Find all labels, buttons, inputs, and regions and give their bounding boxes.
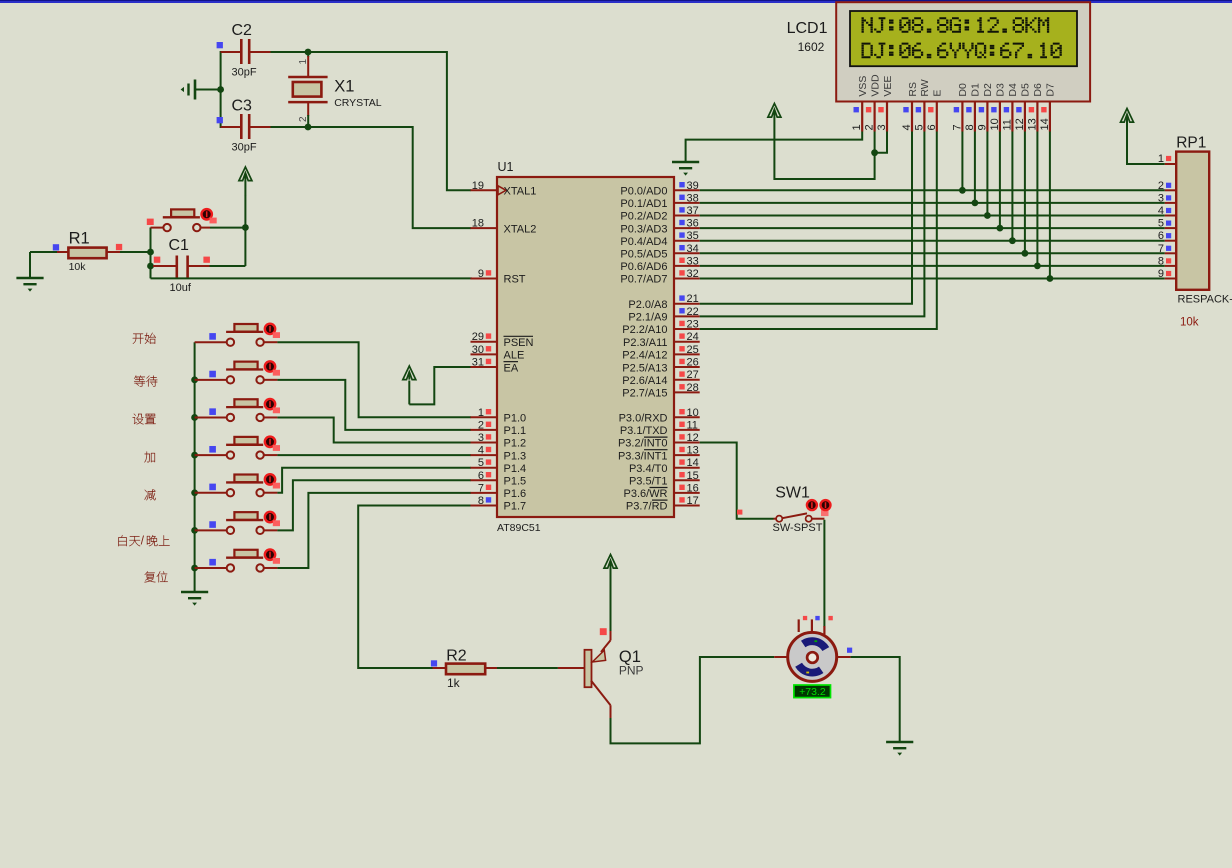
svg-text:3: 3 xyxy=(876,124,888,130)
svg-text:C1: C1 xyxy=(169,237,190,254)
svg-text:P3.4/T0: P3.4/T0 xyxy=(629,463,668,475)
svg-text:10k: 10k xyxy=(1180,317,1199,329)
svg-text:2: 2 xyxy=(1158,180,1164,192)
svg-text:RW: RW xyxy=(919,79,931,96)
svg-text:36: 36 xyxy=(687,218,699,230)
svg-text:P0.5/AD5: P0.5/AD5 xyxy=(620,249,667,261)
svg-text:D6: D6 xyxy=(1032,83,1044,97)
svg-text:P2.4/A12: P2.4/A12 xyxy=(622,350,667,362)
svg-text:33: 33 xyxy=(687,255,699,267)
svg-text:23: 23 xyxy=(687,319,699,331)
svg-text:P2.2/A10: P2.2/A10 xyxy=(622,324,667,336)
svg-text:SW1: SW1 xyxy=(775,485,810,502)
svg-text:21: 21 xyxy=(687,293,699,305)
svg-text:38: 38 xyxy=(687,192,699,204)
svg-text:3: 3 xyxy=(478,432,484,444)
svg-text:29: 29 xyxy=(472,331,484,343)
svg-text:R2: R2 xyxy=(446,647,467,664)
svg-text:5: 5 xyxy=(478,457,484,469)
svg-text:CRYSTAL: CRYSTAL xyxy=(334,97,382,109)
svg-text:35: 35 xyxy=(687,230,699,242)
svg-text:X1: X1 xyxy=(334,78,354,96)
svg-text:P1.4: P1.4 xyxy=(504,463,527,475)
svg-text:P2.0/A8: P2.0/A8 xyxy=(628,299,667,311)
svg-text:13: 13 xyxy=(687,445,699,457)
svg-text:28: 28 xyxy=(687,382,699,394)
svg-text:4: 4 xyxy=(901,124,913,130)
svg-text:P3.2/INT0: P3.2/INT0 xyxy=(618,438,668,450)
svg-text:25: 25 xyxy=(687,344,699,356)
svg-text:30pF: 30pF xyxy=(232,67,257,79)
svg-text:7: 7 xyxy=(951,124,963,130)
svg-text:RESPACK-8: RESPACK-8 xyxy=(1178,294,1232,306)
svg-text:P1.3: P1.3 xyxy=(504,450,527,462)
svg-text:P1.0: P1.0 xyxy=(504,413,527,425)
svg-text:10k: 10k xyxy=(69,261,87,273)
svg-text:+73.2: +73.2 xyxy=(799,686,826,698)
svg-text:PSEN: PSEN xyxy=(504,337,534,349)
svg-text:D7: D7 xyxy=(1045,83,1057,97)
svg-text:12: 12 xyxy=(687,432,699,444)
svg-text:P3.3/INT1: P3.3/INT1 xyxy=(618,450,668,462)
svg-text:P1.5: P1.5 xyxy=(504,476,527,488)
svg-text:2: 2 xyxy=(864,124,876,130)
svg-text:VDD: VDD xyxy=(869,74,881,97)
svg-text:SW-SPST: SW-SPST xyxy=(773,522,823,534)
svg-text:2: 2 xyxy=(478,419,484,431)
svg-text:P1.6: P1.6 xyxy=(504,488,527,500)
svg-text:30: 30 xyxy=(472,344,484,356)
svg-text:8: 8 xyxy=(964,124,976,130)
svg-text:7: 7 xyxy=(478,482,484,494)
svg-text:P2.3/A11: P2.3/A11 xyxy=(623,337,667,349)
svg-text:10: 10 xyxy=(989,118,1001,130)
svg-text:1: 1 xyxy=(298,59,309,65)
svg-text:P0.0/AD0: P0.0/AD0 xyxy=(620,186,667,198)
svg-text:1k: 1k xyxy=(447,676,461,690)
svg-text:6: 6 xyxy=(926,124,938,130)
svg-text:18: 18 xyxy=(472,218,484,230)
svg-text:12: 12 xyxy=(1014,118,1026,130)
svg-text:14: 14 xyxy=(1039,118,1051,130)
svg-text:11: 11 xyxy=(1001,119,1013,130)
svg-text:LCD1: LCD1 xyxy=(787,20,828,37)
svg-text:P1.1: P1.1 xyxy=(504,425,527,437)
svg-text:P2.5/A13: P2.5/A13 xyxy=(622,362,667,374)
svg-text:2: 2 xyxy=(298,116,309,122)
svg-text:VSS: VSS xyxy=(857,76,869,97)
svg-text:1: 1 xyxy=(851,124,863,130)
svg-text:PNP: PNP xyxy=(619,664,644,678)
svg-text:19: 19 xyxy=(472,180,484,192)
svg-text:P2.7/A15: P2.7/A15 xyxy=(622,388,667,400)
svg-text:C3: C3 xyxy=(232,98,253,115)
svg-text:10: 10 xyxy=(687,407,699,419)
svg-text:D1: D1 xyxy=(970,83,982,97)
svg-text:P0.7/AD7: P0.7/AD7 xyxy=(620,274,667,286)
svg-text:P2.1/A9: P2.1/A9 xyxy=(628,312,667,324)
svg-text:10uf: 10uf xyxy=(170,282,192,294)
svg-text:RST: RST xyxy=(504,274,526,286)
svg-text:9: 9 xyxy=(976,124,988,130)
svg-text:5: 5 xyxy=(1158,218,1164,230)
svg-text:D3: D3 xyxy=(995,83,1007,97)
svg-text:22: 22 xyxy=(687,306,699,318)
svg-text:ALE: ALE xyxy=(504,350,525,362)
svg-text:P3.0/RXD: P3.0/RXD xyxy=(619,413,668,425)
svg-text:16: 16 xyxy=(687,482,699,494)
svg-text:1602: 1602 xyxy=(798,40,825,54)
svg-text:3: 3 xyxy=(1158,192,1164,204)
svg-text:P0.4/AD4: P0.4/AD4 xyxy=(620,236,667,248)
svg-text:1: 1 xyxy=(1158,153,1164,165)
svg-text:D5: D5 xyxy=(1020,83,1032,97)
svg-text:34: 34 xyxy=(687,243,699,255)
svg-text:RP1: RP1 xyxy=(1176,135,1206,152)
svg-text:XTAL2: XTAL2 xyxy=(504,223,537,235)
svg-text:7: 7 xyxy=(1158,243,1164,255)
svg-text:9: 9 xyxy=(478,268,484,280)
svg-text:27: 27 xyxy=(687,369,699,381)
svg-text:EA: EA xyxy=(504,362,519,374)
svg-text:P3.5/T1: P3.5/T1 xyxy=(629,476,668,488)
svg-text:31: 31 xyxy=(472,357,484,369)
svg-text:XTAL1: XTAL1 xyxy=(504,186,537,198)
svg-text:26: 26 xyxy=(687,357,699,369)
svg-text:P0.6/AD6: P0.6/AD6 xyxy=(620,261,667,273)
svg-text:P2.6/A14: P2.6/A14 xyxy=(622,375,667,387)
svg-text:P0.3/AD3: P0.3/AD3 xyxy=(620,223,667,235)
svg-text:6: 6 xyxy=(1158,230,1164,242)
svg-text:RS: RS xyxy=(907,82,919,97)
svg-text:37: 37 xyxy=(687,205,699,217)
svg-text:D4: D4 xyxy=(1007,83,1019,97)
svg-text:P0.1/AD1: P0.1/AD1 xyxy=(620,198,667,210)
svg-text:AT89C51: AT89C51 xyxy=(497,522,541,534)
svg-text:9: 9 xyxy=(1158,268,1164,280)
svg-text:C2: C2 xyxy=(232,22,253,39)
svg-text:P3.6/WR: P3.6/WR xyxy=(623,488,667,500)
svg-text:P3.1/TXD: P3.1/TXD xyxy=(620,425,668,437)
svg-text:32: 32 xyxy=(687,268,699,280)
svg-text:R1: R1 xyxy=(69,230,90,248)
svg-text:VEE: VEE xyxy=(882,76,894,97)
svg-text:1: 1 xyxy=(478,407,484,419)
svg-text:U1: U1 xyxy=(498,160,514,174)
svg-text:P3.7/RD: P3.7/RD xyxy=(626,501,668,513)
svg-text:4: 4 xyxy=(1158,205,1164,217)
svg-text:13: 13 xyxy=(1026,118,1038,130)
svg-text:15: 15 xyxy=(687,470,699,482)
svg-text:30pF: 30pF xyxy=(232,142,257,154)
svg-text:4: 4 xyxy=(478,445,484,457)
svg-text:17: 17 xyxy=(687,495,699,507)
svg-text:6: 6 xyxy=(478,470,484,482)
svg-text:24: 24 xyxy=(687,331,699,343)
svg-text:D0: D0 xyxy=(957,83,969,97)
svg-text:39: 39 xyxy=(687,180,699,192)
svg-text:E: E xyxy=(932,90,944,97)
svg-text:D2: D2 xyxy=(982,83,994,97)
svg-text:P0.2/AD2: P0.2/AD2 xyxy=(620,211,667,223)
svg-text:14: 14 xyxy=(687,457,699,469)
svg-text:P1.7: P1.7 xyxy=(504,501,527,513)
svg-text:5: 5 xyxy=(913,124,925,130)
svg-text:8: 8 xyxy=(1158,255,1164,267)
svg-text:P1.2: P1.2 xyxy=(504,438,527,450)
svg-text:8: 8 xyxy=(478,495,484,507)
svg-text:11: 11 xyxy=(687,419,698,431)
